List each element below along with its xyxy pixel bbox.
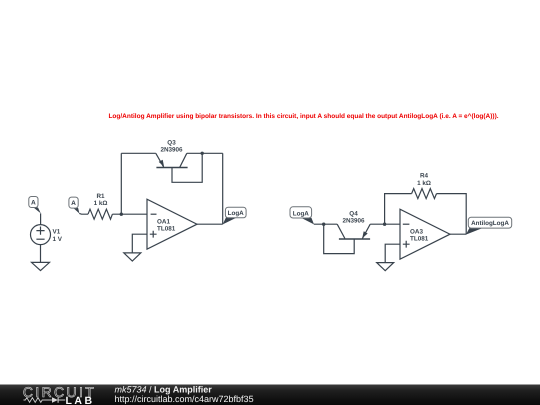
node junction (Q3 base-collector tie) <box>201 152 204 155</box>
wire: feedback left vertical <box>120 153 122 214</box>
wire: top left to Q3 emitter <box>121 152 156 154</box>
svg-text:AntilogLogA: AntilogLogA <box>471 220 509 227</box>
svg-text:TL081: TL081 <box>410 236 429 243</box>
svg-text:Q4: Q4 <box>349 210 358 217</box>
svg-text:A: A <box>31 200 36 207</box>
svg-text:Log/Antilog Amplifier using bi: Log/Antilog Amplifier using bipolar tran… <box>108 113 498 120</box>
wire: R1 to OA1 inverting input <box>112 213 147 215</box>
wire: OA1 output <box>197 223 223 225</box>
node junction (inv input OA1) <box>120 213 123 216</box>
node junction (OA3 inv input) <box>383 223 386 226</box>
node flag AntilogLogA (output) <box>466 217 512 234</box>
resistor R1 <box>88 193 112 219</box>
svg-text:LogA: LogA <box>293 210 310 217</box>
logo diode <box>52 397 58 403</box>
op-amp OA1 <box>147 199 197 249</box>
wire: Q4 emitter to OA3 inverting <box>370 223 400 225</box>
svg-text:1 V: 1 V <box>53 236 63 243</box>
node flag A (at R1) <box>69 197 80 213</box>
op-amp OA3 <box>400 209 450 259</box>
svg-text:http://circuitlab.com/c4arw72b: http://circuitlab.com/c4arw72bfbf35 <box>115 394 254 404</box>
node junction (Q4 base-collector tie) <box>322 223 325 226</box>
wire: A flag to V1 <box>40 213 42 224</box>
node flag A (at V1) <box>29 197 41 214</box>
resistor R4 <box>412 173 437 199</box>
wire: R4 to output vertical <box>437 194 467 235</box>
svg-text:1 kΩ: 1 kΩ <box>417 180 431 187</box>
voltage source V1 <box>31 225 63 245</box>
ground (OA3 noninverting) <box>377 263 394 271</box>
svg-text:A: A <box>71 200 76 207</box>
svg-text:R4: R4 <box>420 173 429 180</box>
svg-text:OA3: OA3 <box>410 228 423 235</box>
svg-text:R1: R1 <box>96 193 105 200</box>
wire: V1 to ground <box>40 245 42 263</box>
svg-text:OA1: OA1 <box>157 218 170 225</box>
svg-text:mk5734 / Log Amplifier: mk5734 / Log Amplifier <box>115 384 213 394</box>
wire: OA1 noninverting to ground <box>132 234 147 253</box>
svg-text:TL081: TL081 <box>157 226 176 233</box>
wire: Q4 base loop <box>324 224 355 253</box>
transistor Q4 <box>337 210 370 239</box>
svg-text:1 kΩ: 1 kΩ <box>94 200 108 207</box>
svg-text:LogA: LogA <box>228 210 245 217</box>
wire: OA3 output <box>450 233 466 235</box>
wire: LogA to Q4 collector <box>314 223 337 225</box>
svg-text:2N3906: 2N3906 <box>342 218 365 225</box>
node flag LogA (source, right circuit) <box>290 207 314 225</box>
wire: OA3 noninverting to ground <box>385 244 400 262</box>
wire: Q3 collector to right <box>187 152 223 154</box>
ground (below V1) <box>32 262 50 270</box>
transistor Q3 <box>156 139 188 167</box>
svg-text:Q3: Q3 <box>167 139 176 146</box>
svg-text:2N3906: 2N3906 <box>160 147 183 154</box>
wire: feedback up left vertical (OA3) <box>385 194 412 225</box>
svg-text:LAB: LAB <box>66 395 95 405</box>
footer bar <box>0 384 540 405</box>
node flag LogA (output) <box>223 207 246 224</box>
wire: Q3 base loop <box>172 153 202 182</box>
ground (OA1 noninverting) <box>124 253 141 261</box>
wire: feedback right vertical <box>222 153 224 224</box>
svg-text:V1: V1 <box>53 229 61 236</box>
wire: A flag to R1 <box>79 212 88 215</box>
logo resistor squiggle <box>24 398 52 403</box>
